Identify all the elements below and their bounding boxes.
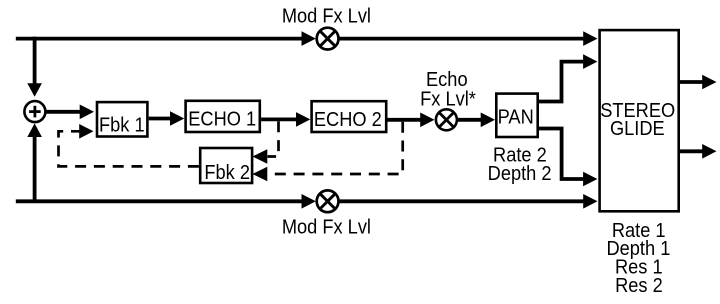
arrowhead into STEREO GLIDE input 4 (583, 194, 597, 209)
arrowhead into bottom Mod Fx multiplier (302, 194, 316, 209)
block Fbk 2 (200, 148, 252, 184)
wire: top multiplier to STEREO GLIDE (339, 37, 585, 41)
summer (+) (24, 101, 45, 122)
arrowhead output L (702, 75, 716, 90)
wire: ECHO 1 to ECHO 2 (261, 118, 296, 122)
wire: bottom multiplier to STEREO GLIDE (339, 199, 585, 203)
arrowhead into Fbk 2 input 2 (253, 167, 268, 182)
dashed wire: Fbk 2 output back to Fbk 1 input 2 (59, 131, 199, 166)
multiplier (bottom Mod Fx Lvl) (317, 190, 339, 212)
arrowhead into STEREO GLIDE input 1 (583, 31, 597, 46)
wire: top Mod Fx bus (left segment) (16, 37, 302, 41)
arrowhead into Fbk 1 input 1 (80, 105, 94, 120)
svg-text:Res 2: Res 2 (615, 274, 663, 297)
arrowhead into STEREO GLIDE input 2 (583, 54, 597, 69)
wire: ECHO 2 to Echo Fx multiplier (388, 118, 423, 122)
svg-text:GLIDE: GLIDE (610, 117, 665, 140)
wire: Fbk 1 to ECHO 1 (149, 117, 172, 121)
svg-text:ECHO 1: ECHO 1 (188, 108, 256, 131)
arrowhead into top Mod Fx multiplier (302, 31, 316, 46)
wire: summer to Fbk 1 (45, 110, 80, 114)
svg-text:Depth 2: Depth 2 (488, 162, 552, 185)
wire: output L (680, 80, 704, 84)
block STEREO GLIDE (600, 30, 679, 211)
svg-text:Mod Fx Lvl: Mod Fx Lvl (282, 4, 371, 27)
dashed wire: ECHO 1 output tap down to Fbk 2 input 1 (268, 121, 279, 156)
wire: PAN bottom output to STEREO GLIDE input 3 (539, 129, 584, 180)
wire: output R (680, 149, 704, 153)
svg-text:Fbk 1: Fbk 1 (99, 114, 145, 137)
svg-text:ECHO 2: ECHO 2 (314, 108, 382, 131)
arrowhead into Fbk 2 input 1 (253, 149, 268, 164)
wire: Echo Fx multiplier to PAN (457, 118, 482, 122)
svg-text:Mod Fx Lvl: Mod Fx Lvl (282, 215, 371, 238)
arrowhead into Fbk 1 input 2 (79, 124, 93, 139)
arrowhead into ECHO 2 (296, 112, 310, 127)
arrowhead into Echo Fx multiplier (420, 113, 434, 128)
multiplier (top Mod Fx Lvl) (317, 28, 339, 50)
svg-text:Fbk 2: Fbk 2 (204, 161, 250, 184)
wire: bottom bus up into summer (33, 137, 37, 201)
label: Rate 1 / Depth 1 / Res 1 / Res 2 (606, 219, 670, 297)
dashed wire: ECHO 2 output tap down to Fbk 2 input 2 (268, 122, 403, 174)
label: Echo / Fx Lvl* (420, 68, 476, 111)
svg-text:Fx Lvl*: Fx Lvl* (420, 87, 476, 110)
arrowhead into summer (from bottom) (27, 123, 42, 137)
arrowhead into ECHO 1 (170, 111, 184, 126)
block PAN (496, 94, 537, 137)
arrowhead output R (702, 144, 716, 159)
multiplier (Echo Fx Lvl*) (436, 109, 457, 130)
wire: branch from top bus down to summer (33, 37, 37, 85)
arrowhead into STEREO GLIDE input 3 (583, 172, 597, 187)
wire: bottom Mod Fx bus (left segment) (16, 199, 302, 203)
arrowhead into summer (from top) (27, 83, 42, 97)
block ECHO 1 (186, 101, 260, 132)
wire: PAN top output to STEREO GLIDE input 2 (539, 62, 584, 102)
block Fbk 1 (97, 102, 147, 137)
arrowhead into PAN (481, 113, 495, 128)
svg-text:PAN: PAN (498, 106, 534, 129)
label: Rate 2 / Depth 2 (488, 144, 552, 186)
block ECHO 2 (312, 101, 387, 132)
